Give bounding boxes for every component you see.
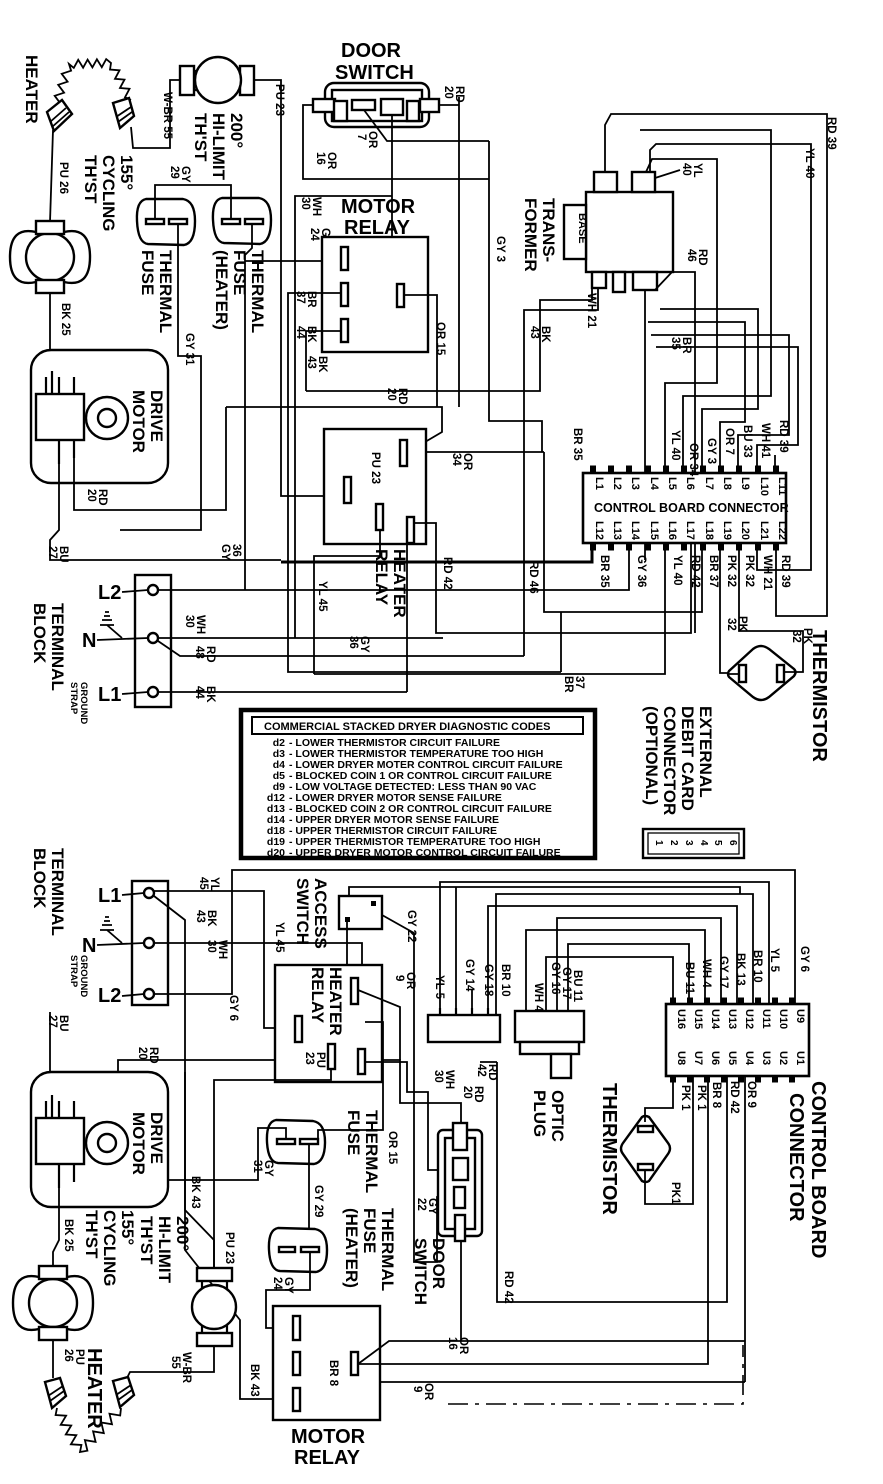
svg-text:YL 5: YL 5 (433, 975, 445, 1000)
svg-text:L19: L19 (721, 521, 733, 540)
heater terminal cone left lower (45, 1378, 66, 1408)
svg-text:PLUG: PLUG (530, 1090, 549, 1137)
svg-text:5: 5 (712, 840, 723, 846)
wire BU27 drive motor to bus (50, 464, 281, 560)
svg-text:PU 23: PU 23 (223, 1232, 235, 1264)
svg-text:HI-LIMIT: HI-LIMIT (155, 1216, 174, 1284)
wire RD20 drive motor long run (74, 407, 226, 510)
svg-text:55: 55 (169, 1356, 181, 1369)
cycling thermostat (lower) (13, 1266, 93, 1340)
svg-text:CONTROL BOARD CONNECTOR: CONTROL BOARD CONNECTOR (594, 501, 789, 515)
svg-text:24: 24 (271, 1277, 283, 1290)
svg-text:THERMAL: THERMAL (378, 1208, 397, 1291)
pins L1-L11 (593, 477, 788, 496)
svg-text:27: 27 (46, 1015, 58, 1028)
svg-text:STRAP: STRAP (68, 955, 79, 988)
svg-text:GY 22: GY 22 (405, 910, 417, 942)
svg-text:WH 21: WH 21 (585, 293, 597, 329)
svg-text:GY 36: GY 36 (635, 555, 647, 587)
svg-text:RELAY: RELAY (308, 967, 327, 1024)
wire OR16 motor relay lower (358, 1341, 745, 1364)
wire heater relay pin4 to codes bus (406, 543, 408, 692)
svg-text:MOTOR: MOTOR (341, 196, 416, 218)
svg-text:N: N (82, 935, 96, 957)
155 cycling thermostat (upper) (10, 221, 90, 293)
svg-text:20: 20 (85, 489, 97, 502)
svg-text:200°: 200° (227, 113, 246, 148)
svg-text:L12: L12 (593, 521, 605, 540)
wire BK43 L1 diag (154, 896, 293, 1399)
svg-text:YL 40: YL 40 (803, 148, 815, 178)
pins U1-U8 (675, 1051, 806, 1066)
svg-text:32: 32 (725, 618, 737, 631)
svg-text:TH'ST: TH'ST (82, 1210, 101, 1259)
svg-text:L21: L21 (758, 521, 770, 540)
transformer (564, 172, 673, 292)
svg-text:U3: U3 (760, 1051, 772, 1065)
wire OR9 under (744, 1076, 746, 1382)
svg-text:COMMERCIAL STACKED DRYER DIAGN: COMMERCIAL STACKED DRYER DIAGNOSTIC CODE… (264, 721, 550, 733)
svg-text:BR 8: BR 8 (710, 1082, 722, 1109)
svg-text:U6: U6 (709, 1051, 721, 1065)
svg-text:200°: 200° (173, 1216, 192, 1251)
svg-text:OPTIC: OPTIC (548, 1090, 567, 1142)
wire OR15 lower (318, 1022, 383, 1139)
svg-text:U13: U13 (726, 1009, 738, 1029)
wire OR16 door switch left (303, 105, 489, 179)
svg-text:U4: U4 (743, 1051, 755, 1066)
svg-text:BR 35: BR 35 (598, 555, 610, 588)
svg-text:THERMISTOR: THERMISTOR (808, 630, 830, 762)
hi-limit thermostat (upper) (180, 57, 254, 103)
svg-text:BASE: BASE (576, 213, 588, 244)
svg-text:BK 43: BK 43 (248, 1364, 260, 1397)
svg-text:37: 37 (573, 676, 585, 689)
terminal block (lower) (132, 881, 168, 1005)
svg-text:GY 17: GY 17 (560, 967, 572, 999)
svg-text:(OPTIONAL): (OPTIONAL) (642, 706, 661, 805)
svg-text:34: 34 (450, 453, 462, 466)
svg-text:PU 23: PU 23 (369, 452, 381, 484)
svg-text:L22: L22 (776, 521, 788, 540)
UPPER SECTION (10, 40, 837, 859)
thermistor (upper) (728, 646, 796, 700)
wire BR37 into motor relay (288, 293, 561, 672)
svg-text:HI-LIMIT: HI-LIMIT (209, 113, 228, 181)
svg-text:HEATER: HEATER (22, 55, 41, 124)
svg-text:ACCESS: ACCESS (311, 878, 330, 949)
wire GY17 (557, 918, 721, 1011)
wire BU27 lower (49, 1012, 51, 1072)
svg-text:YL 40: YL 40 (671, 555, 683, 585)
wire BK25 cycling to drive motor (49, 293, 51, 376)
svg-text:FUSE: FUSE (230, 250, 249, 295)
debit card connector (643, 829, 744, 858)
svg-text:4: 4 (698, 840, 709, 846)
svg-text:16: 16 (314, 152, 326, 165)
svg-text:L9: L9 (739, 477, 751, 490)
wire GY29 bridge between fuses (155, 185, 231, 219)
svg-text:U7: U7 (692, 1051, 704, 1065)
svg-text:(HEATER): (HEATER) (342, 1208, 361, 1288)
svg-text:L7: L7 (703, 477, 715, 490)
svg-text:U15: U15 (692, 1009, 704, 1029)
svg-text:U11: U11 (760, 1009, 772, 1029)
svg-text:L2: L2 (611, 477, 623, 490)
svg-text:U12: U12 (743, 1009, 755, 1029)
LOWER SECTION (13, 848, 829, 1469)
wire GY6 L2 run (154, 870, 795, 1004)
svg-text:PU 23: PU 23 (273, 84, 285, 116)
svg-text:L17: L17 (684, 521, 696, 540)
svg-text:U9: U9 (794, 1009, 806, 1023)
wire OR7 door switch pin (364, 110, 489, 141)
svg-text:RELAY: RELAY (372, 549, 391, 606)
thermal fuse heater (upper) (213, 198, 271, 244)
svg-text:23: 23 (303, 1052, 315, 1065)
svg-text:EXTERNAL: EXTERNAL (696, 706, 715, 798)
wire PU26 heater to cycling thermostat (50, 130, 53, 222)
svg-text:DEBIT CARD: DEBIT CARD (678, 706, 697, 811)
svg-text:YL 40: YL 40 (669, 430, 681, 460)
wire BK43 from motor relay down (306, 288, 592, 391)
svg-text:WH 21: WH 21 (761, 555, 773, 591)
svg-text:31: 31 (251, 1160, 263, 1173)
wire PU23 hi-limit to heater relay (254, 80, 344, 496)
wire RD42 door right (480, 1062, 727, 1302)
svg-text:L2: L2 (98, 582, 121, 604)
svg-text:THERMAL: THERMAL (248, 250, 267, 333)
wire YL40 below (314, 543, 665, 674)
svg-text:TH'ST: TH'ST (137, 1216, 156, 1265)
svg-text:L10: L10 (758, 477, 770, 496)
wire W-BR55 lower (126, 1346, 214, 1380)
svg-text:U2: U2 (777, 1051, 789, 1065)
svg-text:20: 20 (442, 86, 454, 99)
svg-text:PK 32: PK 32 (725, 555, 737, 587)
svg-text:20: 20 (461, 1086, 473, 1099)
wire BR8 long (358, 1076, 708, 1364)
svg-text:42: 42 (475, 1064, 487, 1077)
wire OR9 lower (380, 1381, 745, 1383)
svg-text:TERMINAL: TERMINAL (48, 848, 67, 936)
svg-text:43: 43 (194, 910, 206, 923)
svg-text:RD 42: RD 42 (689, 555, 701, 588)
svg-text:22: 22 (415, 1198, 427, 1211)
svg-text:L8: L8 (721, 477, 733, 490)
svg-text:RD 39: RD 39 (779, 555, 791, 588)
wire RD42 heater relay right (414, 523, 691, 633)
svg-text:L1: L1 (98, 684, 121, 706)
svg-text:45: 45 (197, 877, 209, 890)
svg-text:L5: L5 (666, 477, 678, 490)
wire BR35 transformer down (644, 290, 646, 560)
svg-text:27: 27 (46, 546, 58, 559)
wire BK44 into motor relay (306, 331, 341, 391)
wire WH30 door switch down (295, 115, 392, 638)
svg-text:32: 32 (790, 630, 802, 643)
svg-text:30: 30 (205, 940, 217, 953)
svg-text:PK 32: PK 32 (743, 555, 755, 587)
wire GY31 fuse to drive motor (120, 224, 201, 530)
svg-text:RD 39: RD 39 (825, 117, 837, 150)
svg-text:U10: U10 (777, 1009, 789, 1029)
svg-text:PU 26: PU 26 (57, 162, 69, 194)
wire RD39 right edge (605, 114, 827, 616)
svg-text:2: 2 (668, 840, 679, 846)
wire YL45 L1 run (154, 891, 295, 1028)
heater (lower) element coil (56, 1408, 121, 1452)
wire GY16 (546, 957, 673, 1011)
svg-text:BR 10: BR 10 (499, 964, 511, 997)
svg-text:GY 29: GY 29 (312, 1185, 324, 1217)
wire PK1 lower leg (645, 1076, 693, 1204)
svg-text:L2: L2 (98, 985, 121, 1007)
svg-text:RD 42: RD 42 (728, 1081, 740, 1114)
svg-text:BK 25: BK 25 (62, 1219, 74, 1252)
wire GY3 to pin L7 (660, 309, 758, 473)
access switch (339, 887, 740, 1015)
svg-text:U8: U8 (675, 1051, 687, 1065)
svg-text:44: 44 (294, 326, 306, 339)
svg-text:40: 40 (680, 163, 692, 176)
svg-text:DOOR: DOOR (341, 40, 402, 62)
wire RD20 door switch down (439, 97, 459, 407)
svg-text:20: 20 (385, 388, 397, 401)
svg-text:GY 14: GY 14 (463, 959, 475, 992)
wire WH30 N run lower (154, 943, 362, 967)
control board connector (upper) (583, 469, 789, 547)
svg-text:L13: L13 (611, 521, 623, 540)
wire OR34 from heater relay pin4 (408, 451, 544, 453)
wire BK43 motor lower (185, 1072, 214, 1268)
svg-text:36: 36 (230, 544, 242, 557)
svg-text:DOOR: DOOR (429, 1238, 448, 1289)
svg-text:46: 46 (685, 249, 697, 262)
svg-text:GY 16: GY 16 (549, 962, 561, 994)
svg-text:1: 1 (653, 840, 664, 846)
thermal fuse (upper) (137, 199, 195, 245)
svg-text:BR 8: BR 8 (327, 1360, 339, 1387)
wire RD20 lower run (118, 1060, 461, 1123)
door switch (lower) (438, 1123, 482, 1241)
wire YL45 heater relay down (314, 530, 380, 674)
svg-text:SWITCH: SWITCH (411, 1238, 430, 1305)
drive motor (lower) (31, 1072, 168, 1207)
svg-text:BK 13: BK 13 (734, 953, 746, 986)
svg-text:TH'ST: TH'ST (191, 113, 210, 162)
svg-text:WH 41: WH 41 (759, 423, 771, 459)
svg-text:48: 48 (193, 646, 205, 659)
svg-text:WH 4: WH 4 (700, 959, 712, 988)
svg-text:HEATER: HEATER (326, 967, 345, 1036)
svg-text:GY 17: GY 17 (717, 956, 729, 988)
heater relay (lower) (275, 965, 382, 1082)
wire WH21 transformer down (524, 288, 598, 656)
wire BU11 (568, 944, 689, 1011)
svg-text:DRIVE: DRIVE (147, 1112, 166, 1164)
svg-text:U14: U14 (709, 1009, 721, 1030)
svg-text:U5: U5 (726, 1051, 738, 1065)
svg-text:MOTOR: MOTOR (291, 1426, 366, 1448)
diagnostic codes box (241, 710, 595, 859)
svg-text:FUSE: FUSE (360, 1208, 379, 1253)
svg-text:PK1: PK1 (669, 1182, 681, 1205)
svg-text:BLOCK: BLOCK (30, 848, 49, 909)
svg-text:d20- UPPER DRYER MOTOR CONTROL: d20- UPPER DRYER MOTOR CONTROL CIRCUIT F… (267, 847, 561, 859)
heater (upper) element coil (55, 59, 131, 108)
wire GY36 (159, 255, 629, 590)
svg-text:MOTOR: MOTOR (129, 1112, 148, 1175)
wire GY24 fuse-heater to motor relay (245, 224, 344, 261)
wire BK44 L1 run (159, 691, 407, 693)
svg-text:N: N (82, 630, 96, 652)
svg-text:RELAY: RELAY (294, 1447, 361, 1469)
svg-text:PK 1: PK 1 (679, 1085, 691, 1111)
wire GY29 lower (286, 1144, 309, 1248)
door switch (upper) (313, 83, 439, 127)
wire OR16 door bottom (460, 1241, 462, 1341)
svg-text:U1: U1 (794, 1051, 806, 1065)
terminal block (upper) (135, 575, 171, 707)
wire WH30 heater relay (365, 1062, 453, 1170)
dashed line bottom (448, 1345, 743, 1404)
wire WH30 N run (159, 637, 443, 639)
svg-text:CONNECTOR: CONNECTOR (660, 706, 679, 815)
svg-text:L14: L14 (629, 521, 641, 541)
svg-text:TRANS-: TRANS- (539, 198, 558, 262)
wire WH41 to pin L10 (656, 347, 798, 473)
svg-text:29: 29 (168, 166, 180, 179)
svg-text:L18: L18 (703, 521, 715, 540)
svg-text:WH 4: WH 4 (532, 983, 544, 1012)
svg-text:FUSE: FUSE (138, 250, 157, 295)
svg-text:16: 16 (446, 1337, 458, 1350)
svg-text:L15: L15 (648, 521, 660, 540)
svg-text:BR 35: BR 35 (571, 428, 583, 461)
wire GY31 lower (168, 1128, 286, 1180)
wire BK13 (488, 906, 737, 1015)
svg-text:MOTOR: MOTOR (129, 390, 148, 453)
svg-text:L16: L16 (666, 521, 678, 540)
wire GY3 long vertical (489, 141, 702, 612)
svg-text:RELAY: RELAY (344, 217, 411, 239)
svg-text:SWITCH: SWITCH (293, 878, 312, 945)
svg-text:RD 42: RD 42 (502, 1271, 514, 1304)
svg-text:PK 1: PK 1 (695, 1085, 707, 1111)
wire PK32 b (739, 543, 803, 672)
wire BR35 thick (281, 543, 592, 562)
svg-text:9: 9 (393, 975, 405, 981)
svg-text:RD 39: RD 39 (777, 420, 789, 453)
svg-text:THERMAL: THERMAL (362, 1110, 381, 1193)
wire BK25 motor to cycling (53, 1188, 59, 1266)
heater terminal cone left (47, 100, 72, 131)
svg-text:43: 43 (305, 356, 317, 369)
svg-text:L1: L1 (98, 885, 121, 907)
wire BU33 to pin L9 (651, 335, 789, 473)
ground strap symbol (100, 612, 122, 638)
svg-text:YL 45: YL 45 (273, 922, 285, 953)
svg-text:STRAP: STRAP (68, 682, 79, 715)
svg-text:(HEATER): (HEATER) (212, 250, 231, 330)
svg-text:GY: GY (219, 544, 231, 561)
svg-text:BU 11: BU 11 (571, 970, 583, 1003)
svg-text:TERMINAL: TERMINAL (48, 603, 67, 691)
heater relay (upper) (324, 429, 426, 544)
svg-text:155°: 155° (117, 155, 136, 190)
svg-text:43: 43 (528, 326, 540, 339)
4-pin connector (428, 1008, 500, 1042)
svg-text:GY 6: GY 6 (798, 946, 810, 972)
wire YL5 (440, 882, 769, 1015)
wire BR10 (496, 894, 753, 1015)
thermistor (lower) (621, 1116, 670, 1182)
wire RD46 transformer down (655, 272, 695, 633)
motor relay (lower) (273, 1306, 380, 1420)
optic plug (515, 1011, 584, 1078)
svg-text:FUSE: FUSE (344, 1110, 363, 1155)
svg-text:THERMAL: THERMAL (156, 250, 175, 333)
control board connector (lower) (666, 1001, 809, 1079)
svg-text:THERMISTOR: THERMISTOR (598, 1083, 620, 1215)
svg-text:U16: U16 (675, 1009, 687, 1029)
wire OR34 to pin L6 (640, 130, 771, 473)
svg-text:HEATER: HEATER (83, 1348, 105, 1429)
svg-text:SWITCH: SWITCH (335, 62, 414, 84)
svg-text:TH'ST: TH'ST (81, 155, 100, 204)
wire RD39 to pin L11 (774, 455, 776, 473)
svg-text:GY 3: GY 3 (494, 236, 506, 262)
thermal fuse heater (lower) (269, 1228, 327, 1272)
svg-text:L11: L11 (776, 477, 788, 495)
svg-text:BLOCK: BLOCK (30, 603, 49, 664)
wire YL40 transformer to right bus (650, 144, 811, 570)
wire PU23 hi-limit to heater relay (214, 1068, 331, 1268)
svg-text:20: 20 (136, 1047, 148, 1060)
wire PK32 to thermistor (720, 543, 739, 673)
svg-text:RD 46: RD 46 (527, 561, 539, 594)
svg-text:OR 34: OR 34 (687, 443, 699, 477)
heater terminal cone right (113, 98, 134, 128)
hi-limit thermostat (lower) (192, 1268, 236, 1346)
svg-text:CONTROL BOARD: CONTROL BOARD (807, 1081, 829, 1258)
svg-text:BR 37: BR 37 (707, 555, 719, 588)
wire WH4 (526, 930, 705, 1011)
svg-text:OR 15: OR 15 (434, 322, 446, 356)
wire RD48 N run (158, 641, 524, 656)
svg-text:37: 37 (294, 291, 306, 304)
svg-text:L20: L20 (739, 521, 751, 540)
svg-text:7: 7 (355, 134, 367, 140)
wire YL40 to pin L5 (646, 159, 717, 473)
svg-text:W-BR 55: W-BR 55 (161, 92, 173, 140)
svg-text:CONNECTOR: CONNECTOR (785, 1093, 807, 1222)
svg-text:L6: L6 (684, 477, 696, 490)
svg-text:FORMER: FORMER (521, 198, 540, 272)
wire GY24 lower (266, 1252, 310, 1328)
svg-text:BK 25: BK 25 (59, 303, 71, 336)
wire OR7 to pin L8 (648, 322, 745, 473)
motor relay (upper) (322, 237, 428, 352)
svg-text:9: 9 (411, 1386, 423, 1392)
svg-text:44: 44 (193, 686, 205, 699)
wire PU26 lower (52, 1340, 54, 1378)
svg-text:GY 6: GY 6 (227, 995, 239, 1021)
svg-text:L1: L1 (593, 477, 605, 490)
heater terminal cone right lower (113, 1377, 134, 1407)
svg-text:GY 31: GY 31 (183, 333, 195, 366)
